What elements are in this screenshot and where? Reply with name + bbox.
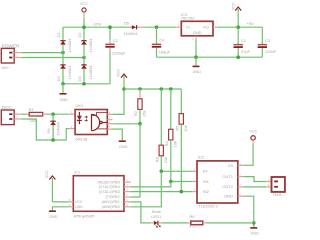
resistor R5	[174, 89, 188, 192]
svg-text:ATtiny45/85: ATtiny45/85	[74, 213, 96, 218]
svg-text:GND: GND	[193, 70, 202, 74]
svg-text:10k: 10k	[172, 141, 177, 147]
node GND junction	[252, 221, 256, 225]
capacitor C3	[258, 27, 277, 57]
svg-text:C1: C1	[241, 38, 247, 43]
capacitor C2	[105, 27, 126, 84]
svg-text:(T0)PB2: (T0)PB2	[106, 195, 120, 199]
node IN2 junction	[180, 190, 184, 194]
node +20V C2 junction	[108, 25, 112, 29]
svg-text:+20V: +20V	[92, 22, 102, 27]
svg-text:R2: R2	[133, 110, 138, 116]
wire VCC to IC2 VS	[244, 144, 254, 165]
wire VCC mid rail	[124, 88, 181, 90]
wire OUT1 to RAIL pin1	[244, 177, 267, 182]
resistor R1	[27, 107, 47, 123]
node IN1 junction	[169, 180, 173, 184]
diode D1	[56, 28, 72, 53]
wire +20V rail	[62, 27, 64, 30]
svg-text:R4: R4	[164, 141, 169, 147]
LED LED1	[151, 209, 162, 227]
svg-text:R5: R5	[174, 125, 179, 131]
ground symbol IC2 GND	[250, 228, 259, 236]
wire R4 down to IC1 pin3	[131, 182, 171, 187]
diode D6	[46, 114, 61, 140]
resistor R6	[188, 214, 207, 229]
connector X2 DCC	[1, 105, 21, 125]
node EF junction	[160, 170, 164, 174]
resistor R4	[164, 89, 178, 182]
node AC1 junction	[61, 51, 65, 55]
svg-text:GND: GND	[224, 194, 233, 199]
wire power pin1 to bridge	[22, 57, 85, 59]
resistor R3	[154, 89, 168, 171]
wire power pin2 to bridge	[22, 52, 64, 54]
internal detector gate	[91, 114, 93, 130]
supply symbol VCC mid	[116, 69, 127, 89]
svg-text:GND: GND	[250, 232, 259, 236]
diode D3	[56, 53, 72, 84]
diode D5	[124, 20, 144, 36]
svg-text:IC2: IC2	[198, 154, 205, 159]
svg-text:470: 470	[189, 224, 196, 229]
H-bridge IC2 TLE5205-2	[193, 154, 244, 208]
wire +5V rail	[218, 26, 262, 28]
svg-text:GND: GND	[75, 205, 83, 209]
optocoupler OK1 6N136	[71, 103, 113, 141]
svg-text:R6: R6	[190, 214, 196, 219]
svg-text:1N4004: 1N4004	[67, 38, 72, 53]
node +5V junction	[236, 25, 240, 29]
diode D4	[77, 58, 93, 84]
svg-text:VCC: VCC	[75, 200, 83, 204]
svg-text:C4: C4	[159, 38, 165, 43]
svg-text:10k: 10k	[183, 125, 188, 131]
wire IC3 GND down	[195, 40, 197, 57]
svg-text:OK1: OK1	[75, 103, 84, 108]
wire R1 to OK1	[46, 113, 68, 115]
resistor R2	[133, 89, 147, 124]
svg-text:D4: D4	[77, 76, 82, 82]
wire OK1 pin6 to R2	[113, 123, 141, 125]
svg-text:VCC: VCC	[249, 130, 257, 134]
svg-text:1N4004: 1N4004	[124, 31, 139, 36]
wire IC1 GND	[52, 207, 68, 211]
node AC2 junction	[82, 56, 86, 60]
wire D5 to IC3	[144, 26, 177, 28]
diode D2	[77, 27, 93, 57]
supply symbol VCC IC2	[249, 130, 257, 145]
wire OK1 pin5 to GND	[113, 129, 123, 141]
ground symbol 5V GND	[193, 57, 202, 74]
svg-text:GND: GND	[49, 215, 58, 219]
supply symbol VCC right	[232, 2, 242, 27]
voltage regulator IC3 78L05Z	[176, 12, 218, 41]
wire R2 down to IC1 pin7	[131, 124, 140, 197]
connector X3 RAIL	[268, 177, 285, 197]
wire R3 down to IC1 pin5	[131, 171, 162, 207]
svg-text:16V~: 16V~	[1, 65, 11, 70]
svg-text:6N136: 6N136	[75, 136, 88, 141]
node D6 top junction	[51, 112, 55, 116]
svg-text:EF: EF	[203, 169, 209, 174]
svg-text:GND: GND	[60, 98, 69, 102]
svg-text:VCC: VCC	[116, 69, 120, 77]
supply symbol VCC IC1	[45, 170, 55, 202]
svg-text:10k: 10k	[163, 157, 168, 163]
wire R6 to GND	[207, 222, 254, 224]
svg-text:POWER: POWER	[2, 44, 21, 50]
svg-text:DCC: DCC	[2, 105, 13, 111]
svg-text:100nF: 100nF	[265, 49, 277, 54]
svg-text:(XTAL2)PB4: (XTAL2)PB4	[99, 185, 120, 189]
svg-text:D1: D1	[56, 32, 61, 38]
node VCC rail junction	[82, 25, 86, 29]
ground symbol IC1 GND	[49, 211, 58, 219]
svg-text:D2: D2	[77, 32, 82, 38]
microcontroller IC1 ATtiny45/85	[69, 170, 131, 219]
svg-text:(AIN1)PB1: (AIN1)PB1	[102, 200, 120, 204]
capacitor C4	[152, 27, 171, 57]
wire IN1 line	[171, 181, 192, 183]
svg-text:47µF: 47µF	[241, 49, 251, 54]
svg-text:GND: GND	[119, 145, 128, 149]
wire bridge bottom rail	[63, 83, 110, 85]
node D6 bottom junction	[51, 138, 55, 142]
ground symbol bridge GND	[60, 84, 69, 102]
svg-text:GND: GND	[193, 30, 202, 35]
svg-text:OUT1: OUT1	[222, 174, 233, 179]
svg-text:VCC: VCC	[80, 2, 88, 6]
ground symbol OK1 GND	[119, 141, 128, 149]
svg-text:1N4004: 1N4004	[88, 38, 93, 53]
node C4 junction	[155, 25, 159, 29]
wire IN2 line from IC1 pin2	[131, 191, 192, 193]
svg-text:+5V: +5V	[247, 21, 255, 26]
svg-text:VI: VI	[186, 24, 190, 29]
svg-text:15k: 15k	[142, 111, 147, 117]
svg-text:78L05Z: 78L05Z	[181, 16, 195, 21]
svg-text:IN1: IN1	[203, 179, 210, 184]
svg-text:R3: R3	[154, 156, 159, 162]
svg-text:1N4004: 1N4004	[67, 65, 72, 80]
connector X1 POWER	[1, 44, 22, 71]
svg-text:VCC: VCC	[45, 170, 49, 178]
node R2 OK1 junction	[138, 122, 142, 126]
supply symbol VCC top	[80, 2, 88, 27]
svg-text:D5: D5	[124, 20, 130, 25]
svg-text:OUT2: OUT2	[222, 184, 233, 189]
wire OUT2 to RAIL pin2	[244, 186, 267, 188]
svg-text:(AIN0)PB0: (AIN0)PB0	[102, 205, 120, 209]
svg-text:LED1: LED1	[151, 214, 162, 219]
svg-text:VS: VS	[228, 163, 234, 168]
svg-text:TLE5205-2: TLE5205-2	[198, 203, 219, 208]
node VCC mid junction	[122, 87, 126, 91]
svg-text:100µF: 100µF	[159, 50, 171, 55]
svg-text:D3: D3	[56, 76, 61, 82]
wire LED1 to R6	[162, 222, 188, 224]
svg-text:(RESET)PB5: (RESET)PB5	[97, 180, 119, 184]
wire 5V section ground rail	[157, 56, 263, 58]
wire DCC pin2 to R1	[22, 113, 27, 115]
svg-text:(XTAL1)PB3: (XTAL1)PB3	[99, 190, 120, 194]
svg-text:VO: VO	[203, 24, 209, 29]
svg-text:1N4004: 1N4004	[56, 121, 61, 136]
svg-text:RAIL: RAIL	[273, 192, 283, 197]
svg-text:2200µF: 2200µF	[112, 50, 126, 55]
capacitor C1	[234, 27, 251, 57]
svg-text:R1: R1	[29, 107, 35, 112]
wire VCC to OK1 pin8	[113, 89, 125, 114]
wire EF line	[161, 170, 192, 172]
svg-text:VCC: VCC	[232, 2, 236, 10]
svg-text:C3: C3	[265, 38, 271, 43]
svg-text:D6: D6	[46, 128, 51, 134]
wire VCC to IC1 pin8	[52, 201, 68, 203]
internal LED	[78, 112, 80, 116]
wire IC2 GND down	[244, 196, 254, 227]
svg-text:IN2: IN2	[203, 189, 210, 194]
svg-text:1N4004: 1N4004	[88, 65, 93, 80]
svg-text:C2: C2	[113, 38, 119, 43]
wire IC1 pin6 to LED1	[131, 202, 151, 223]
wire DCC pin1 to OK1 pin3	[22, 119, 69, 140]
svg-text:IC1: IC1	[74, 170, 81, 175]
